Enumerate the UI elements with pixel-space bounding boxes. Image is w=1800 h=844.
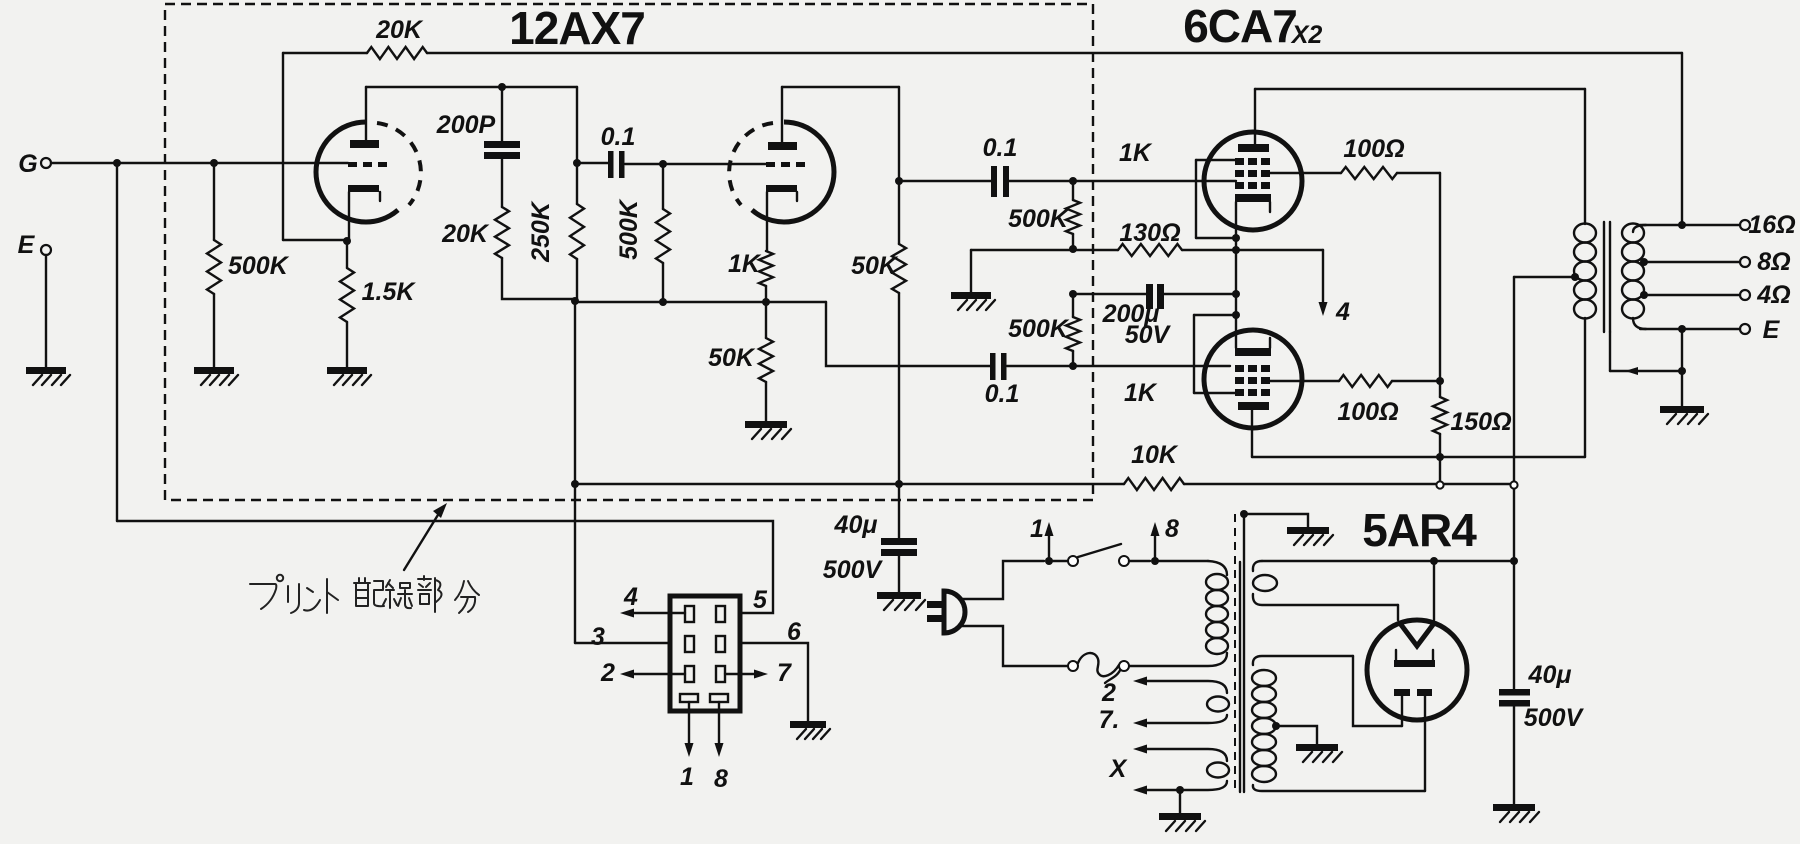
svg-text:1K: 1K — [1124, 379, 1158, 407]
wire V1a cathode lead — [348, 192, 350, 241]
resistor 50K tail — [759, 338, 773, 382]
wire grid wire upper 6CA7 — [1073, 180, 1236, 182]
V1b grid (dashes) — [766, 162, 805, 167]
wire V1b plate bus — [782, 86, 899, 88]
svg-text:4: 4 — [623, 583, 638, 611]
svg-text:12AX7: 12AX7 — [509, 2, 645, 54]
transformer T1 core — [1603, 222, 1605, 332]
wire grid wire lower 6CA7 — [1073, 365, 1230, 367]
svg-text:500K: 500K — [615, 198, 643, 260]
switch S1 contact b — [1119, 556, 1129, 566]
node 50K filter tap — [895, 480, 903, 488]
wire 10K B+ line — [575, 483, 1124, 485]
node heater ground tap — [1176, 786, 1184, 794]
svg-text:200P: 200P — [436, 111, 496, 139]
svg-text:16Ω: 16Ω — [1748, 211, 1795, 239]
wire B+ riser — [1513, 277, 1515, 689]
socket pin rect 1 — [680, 694, 698, 702]
svg-text:150Ω: 150Ω — [1450, 408, 1511, 436]
node coupling tap upper — [895, 177, 903, 185]
terminal 4 ohm — [1740, 290, 1750, 300]
svg-text:40μ: 40μ — [834, 511, 878, 539]
svg-text:1: 1 — [680, 763, 694, 791]
capacitor 40u 500V preamp — [898, 484, 900, 538]
5V winding coil — [1253, 575, 1277, 591]
svg-text:500V: 500V — [1524, 704, 1585, 732]
wire V2 plate lead — [1254, 89, 1256, 144]
heater winding X lead bottom — [1139, 781, 1227, 790]
transformer T2 primary lead bottom — [1129, 653, 1227, 666]
svg-text:100Ω: 100Ω — [1337, 398, 1398, 426]
ground heater — [1159, 813, 1201, 820]
wire plug upper cord — [959, 561, 1044, 599]
heater winding X lead top — [1139, 749, 1227, 761]
node 150 ohm at plate line — [1436, 453, 1444, 461]
node cathode V1a — [343, 237, 351, 245]
fuse element — [1078, 653, 1119, 676]
wire to socket pin3 — [575, 642, 670, 644]
ground shield — [1287, 527, 1329, 534]
wire sw8 arrow — [1154, 532, 1156, 561]
wire 130 ohm line — [971, 249, 1118, 251]
wire pin4 arrow — [1322, 250, 1324, 306]
transformer T2 HV secondary — [1252, 670, 1276, 686]
transformer T1 primary — [1574, 224, 1596, 243]
wire V2 cathode bus — [1235, 202, 1237, 348]
resistor 100 ohm upper — [1341, 167, 1397, 179]
socket pin rect 6 — [716, 636, 725, 652]
svg-text:130Ω: 130Ω — [1119, 219, 1180, 247]
wire pin4 arrow out — [630, 612, 685, 614]
input terminal E — [41, 245, 51, 255]
node grid bus lower — [1069, 362, 1077, 370]
svg-text:500K: 500K — [228, 252, 290, 280]
svg-text:0.1: 0.1 — [983, 134, 1018, 162]
wire OPT CT to B+ — [1514, 276, 1575, 278]
heater winding 2-7 coil — [1207, 697, 1229, 712]
node B+ filter — [1510, 557, 1518, 565]
svg-text:5: 5 — [753, 586, 768, 614]
wire plate bus drop to 0.1 node — [576, 87, 578, 163]
resistor 500K R1 grid leak — [213, 163, 215, 240]
svg-text:8Ω: 8Ω — [1757, 248, 1790, 276]
svg-text:20K: 20K — [375, 16, 424, 44]
wire plate bus upper to OPT — [1255, 88, 1585, 90]
node grid bus upper — [1069, 177, 1077, 185]
svg-text:1K: 1K — [1119, 139, 1153, 167]
node 200P tap — [498, 83, 506, 91]
V3 plate — [1238, 402, 1269, 410]
terminal E output — [1740, 324, 1750, 334]
socket pin rect 5 — [716, 606, 725, 622]
5V winding lead bottom — [1253, 594, 1398, 605]
switch S1 blade — [1078, 544, 1121, 557]
capacitor 200u 50V — [1073, 293, 1146, 295]
V4 plate right — [1417, 689, 1432, 696]
ground OPT — [1660, 406, 1704, 413]
node OPT center tap — [1571, 273, 1579, 281]
node grid2 junction — [659, 160, 667, 168]
tube V2 6CA7 (envelope) — [1204, 132, 1302, 230]
node input junction — [113, 159, 121, 167]
wire bottom bus to socket pin5 — [117, 521, 773, 613]
wire pin7 arrow out — [725, 673, 758, 675]
svg-text:7.: 7. — [1099, 706, 1120, 734]
wire plug lower cord — [959, 626, 1068, 666]
plug AC body — [944, 591, 965, 633]
wire heater ground — [1179, 790, 1181, 813]
ground 50K tail — [745, 421, 787, 428]
HV secondary lead top — [1253, 656, 1353, 665]
V2 plate — [1238, 144, 1269, 152]
svg-text:0.1: 0.1 — [985, 380, 1020, 408]
node 500K R4 bottom — [659, 298, 667, 306]
svg-text:5AR4: 5AR4 — [1362, 504, 1477, 556]
socket pin rect 2 — [685, 666, 694, 682]
resistor 1.5K cathode — [346, 241, 348, 268]
node screen bus — [1436, 377, 1444, 385]
wire 50K drop — [898, 87, 900, 244]
ground pin6 — [790, 721, 826, 728]
svg-text:250K: 250K — [527, 200, 555, 263]
node HV center tap — [1272, 722, 1280, 730]
node V2 cathode strap — [1232, 234, 1240, 242]
socket pin rect 8 — [710, 694, 728, 702]
wire E tap — [1633, 318, 1646, 329]
wire G input line — [51, 162, 348, 164]
resistor 20K R3 — [495, 207, 509, 258]
ground E input — [26, 367, 66, 374]
heater winding 2-7 lead bottom — [1139, 715, 1227, 723]
wire B+ line — [1262, 560, 1514, 562]
wire to PT primary top — [1159, 560, 1208, 562]
V1b cathode — [766, 185, 797, 192]
transformer T2 primary — [1206, 574, 1228, 590]
wire V3 screen to 100 ohm — [1269, 380, 1339, 382]
capacitor 40u 500V main — [1499, 689, 1530, 696]
wire 130 ohm ground drop — [970, 250, 972, 292]
node 4 ohm tap — [1640, 291, 1648, 299]
ground 130 ohm — [951, 292, 991, 299]
wire E to ground — [45, 255, 47, 367]
svg-text:50K: 50K — [851, 252, 899, 280]
capacitor 0.1 C2 (upper) — [899, 180, 991, 182]
svg-text:50V: 50V — [1125, 321, 1172, 349]
ground HV CT — [1296, 744, 1338, 751]
wire left bus down from G line — [116, 163, 118, 521]
wire V4 filament right lead — [1433, 561, 1435, 620]
node E tap ground — [1678, 325, 1686, 333]
wire pin2 arrow out — [630, 673, 685, 675]
V3 cathode — [1235, 348, 1271, 356]
svg-text:500K: 500K — [1008, 315, 1070, 343]
V4 cathode bar — [1394, 660, 1435, 667]
ground 40u main — [1493, 804, 1535, 811]
V1b plate — [768, 142, 797, 150]
wire OPT ground drop — [1681, 329, 1683, 406]
wire feedback right drop — [1681, 53, 1683, 225]
wire OPT primary bottom — [1584, 318, 1586, 457]
node 500K grid tap — [210, 159, 218, 167]
node 150 ohm at 10K line — [1436, 481, 1443, 488]
node V2 cathode at 130 ohm — [1232, 246, 1240, 254]
heater winding 2-7 lead top — [1139, 681, 1227, 693]
node 1K bottom — [762, 298, 770, 306]
terminal 16 ohm — [1740, 220, 1750, 230]
tube V1b 12AX7 triode (envelope) — [752, 122, 834, 222]
V2 suppressor strap — [1196, 159, 1235, 161]
wire V3 plate lead — [1251, 410, 1253, 457]
svg-text:E: E — [1763, 316, 1781, 344]
V4 plate left — [1394, 689, 1410, 696]
node 130 ohm junction — [1069, 245, 1077, 253]
terminal 8 ohm — [1740, 257, 1750, 267]
wire HV CT to ground — [1276, 726, 1317, 744]
tube V1a 12AX7 triode (envelope) — [316, 122, 398, 222]
svg-text:6: 6 — [787, 618, 802, 646]
wire board vertical — [574, 301, 576, 643]
node 8 ohm tap — [1640, 258, 1648, 266]
resistor 500K lower — [1066, 317, 1080, 351]
transformer T1 secondary — [1622, 224, 1644, 243]
wire grid V1b — [663, 163, 766, 165]
ground 500K R1 — [194, 367, 234, 374]
label caption puri-nto haisen bubun (printed wiring section) — [250, 584, 276, 609]
switch S1 contact a — [1068, 556, 1078, 566]
wire lower coupling run — [826, 302, 990, 366]
5V winding lead top (B+) — [1253, 561, 1262, 571]
svg-text:1.5K: 1.5K — [362, 278, 417, 306]
node V3 cathode strap — [1232, 311, 1240, 319]
V2 cathode — [1235, 194, 1271, 202]
V1a grid (dashes) — [348, 162, 387, 167]
svg-text:500V: 500V — [823, 556, 884, 584]
svg-text:2: 2 — [600, 659, 615, 687]
socket pin rect 4 — [685, 606, 694, 622]
node switch feed 8 — [1151, 557, 1159, 565]
wire pin8 arrow down — [718, 702, 720, 745]
node rectifier filament B+ — [1430, 557, 1438, 565]
input terminal G — [41, 158, 51, 168]
svg-text:2: 2 — [1101, 679, 1116, 707]
capacitor 0.1 C3 (lower) — [990, 353, 996, 380]
svg-text:40μ: 40μ — [1528, 661, 1572, 689]
svg-text:4Ω: 4Ω — [1756, 281, 1790, 309]
svg-text:7: 7 — [777, 659, 792, 687]
tube V3 6CA7 (envelope) — [1204, 330, 1302, 428]
transformer T2 core shield (dashed) — [1234, 514, 1236, 788]
svg-text:G: G — [18, 150, 37, 178]
svg-text:8: 8 — [1165, 515, 1179, 543]
V3 grids (3x3) — [1235, 365, 1244, 372]
socket pin rect 7 — [716, 666, 725, 682]
svg-text:3: 3 — [591, 623, 605, 651]
wire 4 ohm tap — [1644, 294, 1740, 296]
transformer T2 core — [1239, 562, 1241, 792]
V4 filament V — [1399, 622, 1435, 646]
HV secondary lead bottom — [1253, 785, 1425, 791]
node 200u junction left — [1069, 290, 1077, 298]
socket pin rect 3 — [685, 636, 694, 652]
svg-text:500K: 500K — [1008, 205, 1070, 233]
heater winding X coil — [1207, 763, 1229, 778]
wire pin1 arrow down — [688, 702, 690, 745]
resistor 150 ohm — [1439, 381, 1441, 397]
wire shield to ground — [1244, 514, 1308, 527]
resistor 50K plate load — [892, 244, 906, 293]
resistor 500K R4 — [662, 164, 664, 209]
svg-text:100Ω: 100Ω — [1343, 135, 1404, 163]
wire to switch contact — [1053, 560, 1068, 562]
wire feedback left drop — [282, 53, 284, 240]
V1a cathode — [348, 185, 379, 192]
wire feedback to cathode — [283, 239, 347, 241]
node plate1/coupling junction — [573, 159, 581, 167]
svg-text:E: E — [18, 231, 36, 259]
node B+ at 10K line — [1510, 481, 1517, 488]
ground 40u preamp — [877, 592, 921, 599]
svg-text:50K: 50K — [708, 344, 756, 372]
wire HV bottom to plate right — [1424, 696, 1426, 791]
node feedback at 16 ohm — [1678, 221, 1686, 229]
callout arrow to dashed box — [404, 510, 441, 570]
node shield junction — [1678, 367, 1686, 375]
wire 16 ohm tap — [1633, 225, 1646, 232]
resistor 20K feedback — [283, 52, 367, 54]
wire V1a plate lead — [365, 87, 367, 140]
wire V1b plate lead — [781, 87, 783, 142]
resistor 500K upper — [1072, 181, 1074, 200]
wire V1b cathode lead — [766, 192, 768, 251]
svg-text:0.1: 0.1 — [601, 123, 636, 151]
ground 1.5K — [327, 367, 367, 374]
wire HV top to plate left — [1353, 656, 1402, 726]
resistor 250K plate load — [576, 163, 578, 204]
resistor 1K cathode V1b — [759, 251, 773, 286]
V2 grids (3x3) — [1235, 158, 1244, 165]
fuse contact a — [1068, 661, 1078, 671]
wire plate line lower — [1252, 456, 1585, 458]
wire V2 screen to 100 ohm — [1269, 172, 1341, 174]
svg-text:X: X — [1108, 755, 1128, 783]
node shield top — [1240, 510, 1248, 518]
resistor 100 ohm lower — [1339, 375, 1392, 387]
node switch feed 1 — [1045, 557, 1053, 565]
transformer T2 primary lead top — [1208, 561, 1227, 575]
tube V4 5AR4 (envelope) — [1367, 620, 1467, 720]
svg-text:X2: X2 — [1290, 21, 1323, 49]
capacitor 200P — [501, 87, 503, 141]
plug AC prongs — [927, 601, 942, 608]
node cathode at 200u — [1232, 290, 1240, 298]
node 250K bottom — [571, 297, 579, 305]
wire V1a plate bus — [366, 86, 577, 88]
svg-text:8: 8 — [714, 765, 728, 793]
capacitor 0.1 C1 — [577, 162, 608, 164]
svg-text:20K: 20K — [441, 220, 490, 248]
svg-text:6CA7: 6CA7 — [1183, 0, 1297, 52]
wire pin6 out — [740, 643, 808, 721]
fuse contact b — [1119, 661, 1129, 671]
V3 suppressor strap — [1194, 314, 1236, 316]
svg-text:4: 4 — [1335, 298, 1350, 326]
socket (tube socket outline) — [670, 596, 740, 711]
dashed box printed-wiring section — [165, 4, 1093, 500]
svg-text:1: 1 — [1030, 515, 1044, 543]
wire switch to primary — [1129, 560, 1150, 562]
V1a plate — [350, 140, 379, 148]
node 10K left — [571, 480, 579, 488]
wire sw1 arrow — [1048, 532, 1050, 561]
wire 8 ohm tap — [1644, 261, 1740, 263]
wire V4 filament left lead — [1397, 605, 1399, 620]
svg-text:1K: 1K — [728, 250, 762, 278]
wire cathode row — [575, 301, 826, 303]
wire OPT shield — [1609, 332, 1611, 371]
svg-text:10K: 10K — [1131, 441, 1179, 469]
wire screen bus drop — [1439, 173, 1441, 381]
